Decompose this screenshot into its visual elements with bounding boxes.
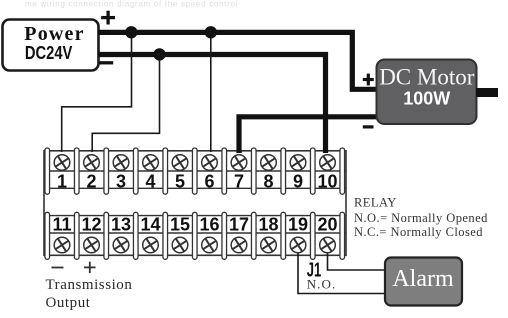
junction dot on 0V rail feeding terminal 2 [153, 48, 165, 60]
svg-text:100W: 100W [403, 88, 450, 108]
alarm A1 [385, 258, 462, 306]
svg-text:14: 14 [140, 215, 160, 235]
junction dot on +24V rail feeding terminal 1 [125, 26, 137, 38]
power + terminal label [101, 11, 115, 25]
terminal block TB1 body [44, 151, 346, 256]
wire from +24V junction to terminal 6 [210, 32, 212, 152]
svg-text:4: 4 [145, 171, 155, 191]
svg-text:16: 16 [199, 215, 219, 235]
wire from +24V junction to terminal 1 [62, 32, 132, 152]
terminal dividers top row [45, 148, 345, 194]
svg-text:5: 5 [175, 171, 185, 191]
svg-text:N.O.= Normally Opened: N.O.= Normally Opened [354, 211, 488, 225]
svg-text:11: 11 [52, 215, 71, 235]
wire 0V rail from power to terminal 10 [98, 55, 326, 154]
svg-text:19: 19 [288, 215, 308, 235]
wire from terminal 19 to alarm [298, 250, 385, 294]
svg-text:8: 8 [263, 171, 273, 191]
wire from terminal 20 to alarm [328, 250, 386, 270]
svg-text:N.C.= Normally Closed: N.C.= Normally Closed [354, 225, 483, 239]
wire from 0V junction to terminal 2 [92, 55, 159, 153]
relay note [354, 195, 488, 239]
wire from terminal 7 to DC motor minus [239, 117, 378, 153]
svg-text:DC24V: DC24V [25, 42, 73, 63]
power supply PS1 Power DC24V [3, 20, 99, 71]
svg-text:DC Motor: DC Motor [379, 65, 475, 90]
svg-text:6: 6 [204, 171, 214, 191]
svg-text:17: 17 [229, 215, 249, 235]
svg-text:3: 3 [116, 171, 126, 191]
svg-text:me wiring connection diagram o: me wiring connection diagram of the spee… [25, 0, 238, 9]
svg-text:Output: Output [46, 295, 91, 311]
svg-text:18: 18 [258, 215, 278, 235]
svg-text:13: 13 [111, 215, 131, 235]
terminal pin numbers 1-10 [57, 171, 338, 191]
dc motor M1 100W [377, 60, 477, 125]
motor shaft stub [476, 88, 498, 97]
transmission output + label [84, 262, 96, 273]
motor - terminal label [363, 125, 374, 128]
svg-text:10: 10 [317, 171, 337, 191]
junction dot on +24V rail feeding terminal 6 [205, 26, 217, 38]
wire +24V rail from power to DC motor [98, 32, 378, 89]
svg-text:RELAY: RELAY [354, 195, 397, 209]
svg-text:1: 1 [57, 171, 67, 191]
svg-text:20: 20 [317, 215, 337, 235]
svg-text:Alarm: Alarm [392, 266, 454, 292]
terminal screws 11-20 [54, 237, 335, 253]
power - terminal label [99, 61, 113, 64]
svg-text:7: 7 [234, 171, 244, 191]
terminal screws 1-10 [54, 155, 335, 171]
terminal pin numbers 11-20 [52, 215, 337, 235]
transmission output - label [52, 267, 64, 269]
transmission output caption [46, 277, 133, 311]
svg-text:15: 15 [170, 215, 190, 235]
svg-text:Transmission: Transmission [46, 277, 133, 293]
faint cropped caption text at top edge [25, 0, 238, 9]
svg-text:N.O.: N.O. [307, 277, 337, 292]
terminal dividers bottom row [45, 212, 345, 259]
motor + terminal label [363, 74, 374, 86]
svg-text:9: 9 [293, 171, 303, 191]
svg-text:12: 12 [81, 215, 101, 235]
svg-text:2: 2 [86, 171, 96, 191]
